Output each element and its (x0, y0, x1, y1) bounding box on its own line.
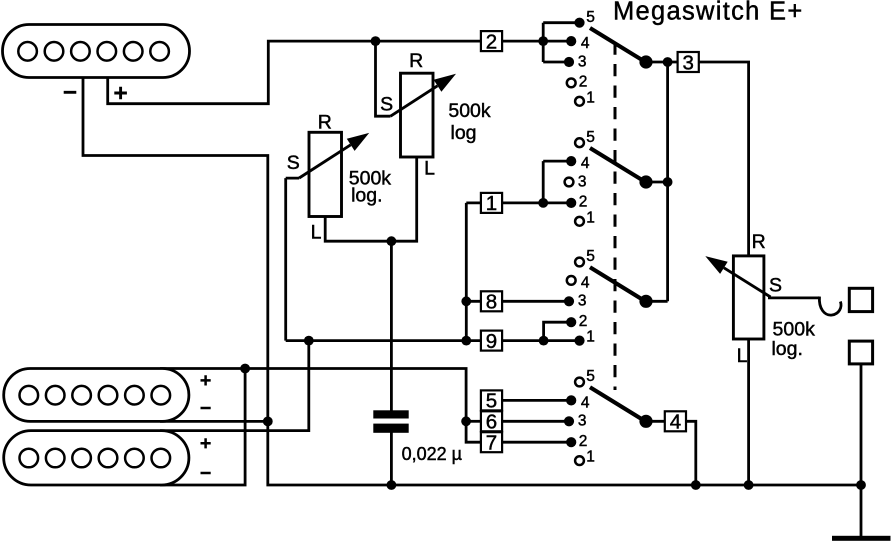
svg-text:Megaswitch E+: Megaswitch E+ (613, 0, 804, 25)
svg-text:1: 1 (586, 449, 595, 466)
deck 3 contact 5 (open) (575, 258, 584, 267)
junction deck2 wiper / output rail (663, 177, 673, 187)
output jack sleeve terminal (849, 341, 872, 364)
deck 1 contact 3 (connected) (564, 57, 574, 67)
humbucker north coil plus label (201, 375, 211, 385)
svg-text:500k: 500k (448, 100, 491, 122)
svg-text:3: 3 (578, 53, 587, 70)
wire series link coil junction (160, 369, 245, 486)
wire tag 1 to deck2 contact 2 (466, 201, 571, 204)
humbucker north coil minus label (201, 407, 211, 410)
svg-text:S: S (769, 275, 782, 297)
deck 3 contact 2 (connected) (566, 317, 576, 327)
output jack tip terminal (849, 288, 872, 311)
svg-text:5: 5 (586, 129, 595, 146)
deck 2 contact 1 (open) (575, 217, 584, 226)
svg-text:log.: log. (771, 338, 802, 360)
wire cap node through capacitor C1 to ground rail (390, 241, 393, 485)
deck1 bracket wire contacts 5-4-3 (543, 23, 579, 62)
svg-text:4: 4 (581, 395, 590, 412)
svg-text:4: 4 (670, 411, 681, 434)
junction tag1 wire / deck2 bracket (538, 198, 548, 208)
capacitor C1 0,022u plates (373, 410, 408, 433)
svg-text:5: 5 (486, 390, 497, 413)
tag box 6 (481, 411, 502, 434)
svg-text:S: S (287, 152, 300, 174)
megaswitch deck 1 lever (590, 28, 646, 62)
megaswitch deck 4 lever (590, 387, 646, 421)
humbucker south coil pickup (4, 431, 189, 485)
deck 4 contact 3 (connected) (564, 416, 574, 426)
junction tag4 wire / ground rail (691, 480, 701, 490)
svg-text:1: 1 (586, 209, 595, 226)
tag box 4 (665, 411, 686, 434)
svg-text:R: R (752, 231, 766, 253)
svg-text:8: 8 (486, 291, 497, 314)
switch shaft dashed line (614, 43, 617, 391)
svg-text:0,022 µ: 0,022 µ (402, 444, 462, 464)
wire tag 3 to pot P3 terminal R (699, 62, 749, 256)
svg-text:1: 1 (486, 192, 497, 215)
wire stub to tag 6 (466, 420, 481, 423)
wire tag 6 to deck4 contact 3 (502, 420, 569, 423)
wire pot P3 wiper S to output jack (768, 296, 820, 299)
tag box 8 (481, 291, 502, 314)
potentiometer P2 wiper arrow (391, 74, 457, 116)
potentiometer P3 wiper arrow (705, 256, 770, 297)
wire pot P1 wiper S down to hot bus (286, 178, 299, 341)
ground symbol (832, 536, 891, 541)
svg-text:R: R (318, 112, 332, 134)
wire neck pickup minus to ground rail (83, 76, 861, 485)
svg-text:1: 1 (586, 329, 595, 346)
junction deck1 bracket feed (538, 36, 548, 46)
junction ground rail / jack sleeve (856, 480, 866, 490)
junction capacitor C1 / ground rail (387, 480, 397, 490)
deck 1 contact 1 (open) (575, 97, 584, 106)
svg-text:5: 5 (586, 368, 595, 385)
svg-text:4: 4 (581, 155, 590, 172)
svg-text:2: 2 (579, 194, 588, 211)
svg-text:2: 2 (579, 433, 588, 450)
megaswitch deck 2 wiper pivot (639, 175, 652, 188)
wire humbucker north coil minus to ground (160, 420, 268, 423)
junction tag8 riser (461, 296, 471, 306)
svg-text:3: 3 (578, 173, 587, 190)
wire output jack hook curl (819, 297, 841, 316)
junction hot bus / south coil plus (304, 336, 314, 346)
svg-text:4: 4 (581, 275, 590, 292)
neck pickup minus label (64, 91, 77, 94)
tag box 9 (481, 330, 502, 353)
svg-text:R: R (409, 50, 423, 72)
humbucker south coil minus label (201, 472, 211, 475)
hot bus wire to deck3 contact 1 via tag 9 (286, 339, 580, 342)
wire pot P2 terminal L to cap node (391, 157, 416, 241)
wire pot P1 terminal L to cap node (325, 217, 391, 242)
svg-text:5: 5 (586, 248, 595, 265)
deck 2 contact 4 (connected) (566, 156, 576, 166)
svg-text:6: 6 (486, 411, 497, 434)
svg-text:7: 7 (486, 432, 497, 455)
svg-text:L: L (737, 345, 748, 367)
megaswitch deck 3 wiper pivot (639, 295, 652, 308)
svg-text:1: 1 (586, 89, 595, 106)
svg-text:2: 2 (579, 313, 588, 330)
deck 4 contact 5 (open) (575, 378, 584, 387)
svg-text:9: 9 (486, 330, 497, 353)
deck 4 contact 4 (connected) (566, 395, 576, 405)
svg-text:log: log (450, 122, 476, 144)
wire humbucker north coil plus to tags 6,7 (160, 369, 482, 443)
wire junction to pot P2 wiper S (376, 41, 391, 116)
deck 1 contact 2 (open) (567, 79, 576, 88)
svg-text:3: 3 (578, 293, 587, 310)
megaswitch deck 2 lever (590, 148, 646, 182)
wire riser feeding tags 1 and 8 (465, 203, 468, 341)
svg-text:3: 3 (578, 413, 587, 430)
deck 3 contact 1 (connected) (574, 336, 584, 346)
tag box 5 (481, 390, 502, 413)
wiper output rail decks 1-3 (646, 62, 677, 301)
wire tag 7 to deck4 contact 2 (502, 441, 571, 444)
potentiometer P1 wiper arrow (299, 133, 369, 178)
junction deck1 wiper / output rail (663, 57, 673, 67)
deck 3 contact 3 (connected) (564, 296, 574, 306)
tag box 2 (481, 30, 502, 53)
wire tag 5 to deck4 contact 4 (502, 399, 571, 402)
potentiometer P3 body (733, 256, 764, 339)
deck2 bracket wire contacts 4-2 (543, 161, 571, 203)
svg-text:L: L (311, 222, 322, 244)
svg-text:2: 2 (486, 30, 497, 53)
megaswitch deck 1 wiper pivot (639, 55, 652, 68)
tag box 1 (481, 192, 502, 215)
wire humbucker south coil plus riser to hot bus (160, 341, 309, 431)
deck 1 contact 5 (connected) (574, 18, 584, 28)
junction tag6 stub (461, 416, 471, 426)
humbucker south coil plus label (201, 438, 211, 448)
svg-text:S: S (380, 93, 393, 115)
humbucker north coil pickup (4, 369, 189, 422)
junction north coil minus / ground vertical (263, 417, 273, 427)
potentiometer P2 body (401, 73, 434, 157)
deck 4 contact 2 (connected) (566, 437, 576, 447)
svg-text:log.: log. (351, 184, 382, 206)
junction north coil plus / series link (240, 364, 250, 374)
deck 1 contact 4 (connected) (566, 36, 576, 46)
wire pot P3 terminal L to ground rail (747, 339, 750, 485)
deck 3 contact 4 (open) (567, 276, 576, 285)
junction pot P3 L / ground rail (744, 480, 754, 490)
junction plus wire / pot P2 S (371, 36, 381, 46)
junction hot bus / tag riser (461, 336, 471, 346)
deck3 bracket wire contacts 2-1 (544, 322, 571, 340)
megaswitch deck 4 wiper pivot (639, 415, 652, 428)
wire tag 8 to deck3 contact 3 (466, 300, 569, 303)
deck 2 contact 3 (open) (565, 178, 574, 187)
potentiometer P1 body (309, 132, 342, 216)
svg-text:2: 2 (579, 74, 588, 91)
junction pots L / capacitor node (387, 236, 397, 246)
wire jack sleeve to ground (860, 363, 863, 537)
megaswitch deck 3 lever (590, 267, 646, 301)
tag box 7 (481, 432, 502, 455)
neck pickup plus label (114, 87, 127, 100)
wire neck pickup plus to deck1 contact 4 (108, 41, 571, 104)
svg-text:3: 3 (682, 51, 693, 74)
deck 2 contact 2 (connected) (566, 198, 576, 208)
deck 2 contact 5 (open) (575, 138, 584, 147)
neck single-coil pickup (3, 25, 190, 78)
deck 4 contact 1 (open) (575, 456, 584, 465)
junction hot bus / deck3 bracket (539, 336, 549, 346)
svg-text:L: L (424, 158, 435, 180)
tag box 3 (678, 51, 699, 74)
svg-text:5: 5 (586, 9, 595, 26)
svg-text:4: 4 (581, 35, 590, 52)
wire deck4 wiper via tag 4 to ground rail (646, 421, 696, 485)
